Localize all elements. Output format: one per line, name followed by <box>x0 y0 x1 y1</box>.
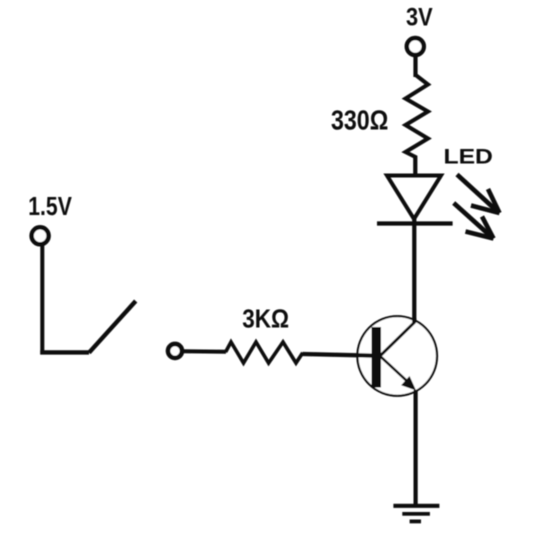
wire 3V terminal to R1 <box>413 56 417 77</box>
transistor Q1 emitter lead <box>381 357 409 383</box>
wire 1.5V terminal down <box>40 246 44 355</box>
svg-text:330Ω: 330Ω <box>331 104 388 135</box>
wire R1 to LED <box>413 156 417 177</box>
resistor R2 3K ohm <box>226 342 303 363</box>
wire emitter to ground <box>414 390 418 506</box>
terminal 1.5V <box>32 227 49 244</box>
LED D1 cathode bar <box>377 221 453 225</box>
transistor Q1 collector lead <box>381 322 416 356</box>
wire switch bottom horizontal <box>40 350 89 354</box>
wire collector to LED junction <box>412 318 416 323</box>
svg-text:3V: 3V <box>406 4 433 32</box>
wire LED cathode to Q1 collector <box>412 215 416 323</box>
ground symbol <box>393 504 439 524</box>
terminal switch contact <box>168 344 182 358</box>
LED light emission arrow 1 <box>457 175 500 214</box>
resistor R1 330ohm <box>406 75 429 158</box>
transistor Q1 emitter arrowhead <box>402 377 415 390</box>
wire switch contact to R2 <box>183 349 227 354</box>
switch SW1 blade (open) <box>89 301 136 353</box>
LED light emission arrow 2 <box>454 203 494 239</box>
wire base: R2 to Q1 base <box>303 354 374 356</box>
svg-text:LED: LED <box>444 146 493 169</box>
transistor Q1 base bar <box>372 327 382 388</box>
LED D1 anode triangle <box>387 176 441 220</box>
svg-text:1.5V: 1.5V <box>28 191 72 221</box>
terminal 3V <box>407 38 424 55</box>
svg-text:3KΩ: 3KΩ <box>242 304 289 334</box>
transistor Q1 body circle <box>357 316 437 396</box>
